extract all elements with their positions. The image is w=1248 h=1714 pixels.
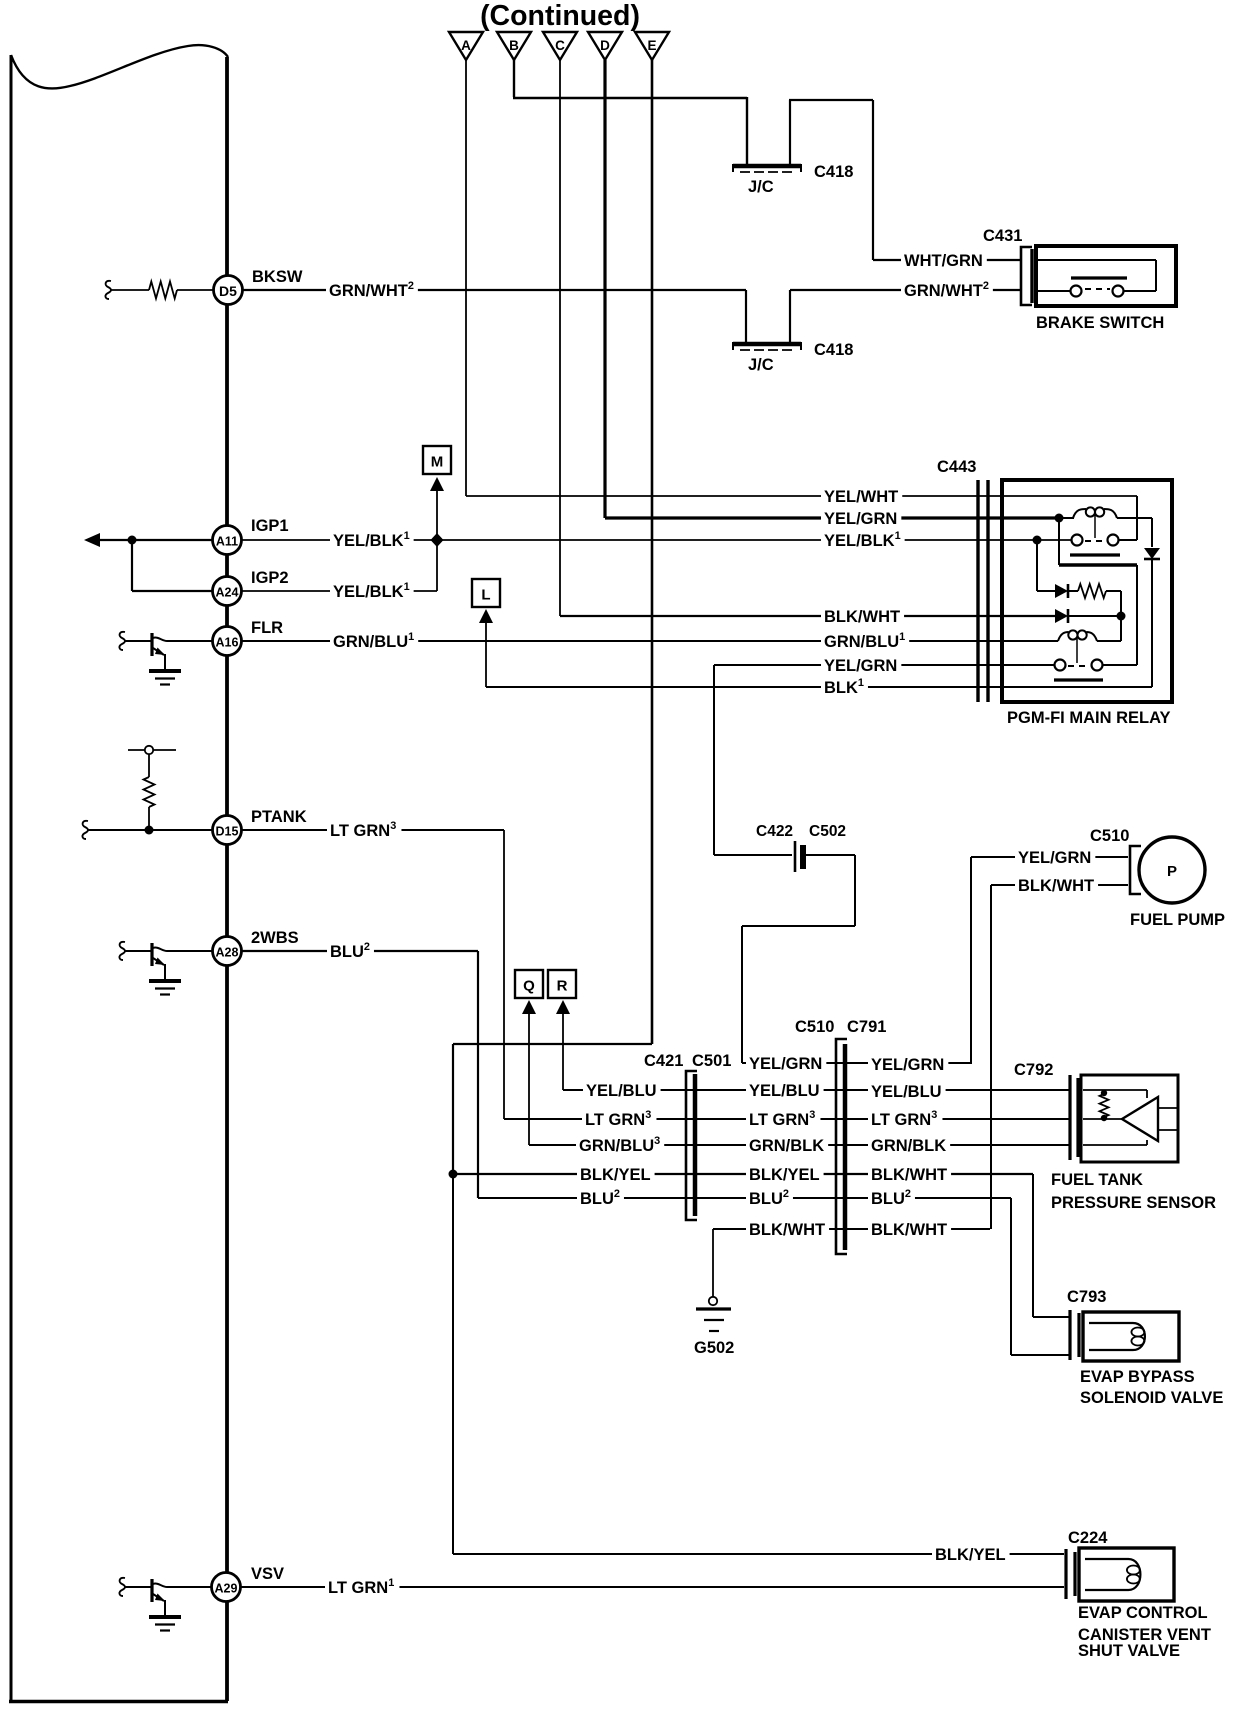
relay coil 1 (1059, 507, 1117, 518)
svg-text:GRN/BLU3: GRN/BLU3 (579, 1135, 660, 1155)
svg-text:C422: C422 (756, 823, 793, 840)
wire D to YEL/GRN (605, 60, 1059, 528)
svg-text:BLK/WHT: BLK/WHT (871, 1221, 947, 1239)
svg-text:(Continued): (Continued) (480, 0, 640, 32)
label BRAKE SWITCH (1036, 314, 1164, 332)
wire GRN/WHT2 from D5 to J/C (243, 280, 747, 300)
label PTANK (251, 808, 307, 826)
wire YEL/GRN to fuel pump (971, 847, 1128, 1064)
label PGM-FI MAIN RELAY (1007, 709, 1170, 727)
svg-text:LT GRN3: LT GRN3 (871, 1109, 937, 1129)
svg-text:EVAP BYPASS: EVAP BYPASS (1080, 1368, 1195, 1386)
svg-text:GRN/WHT2: GRN/WHT2 (329, 280, 414, 300)
svg-text:GRN/BLU1: GRN/BLU1 (333, 631, 414, 651)
relay node YEL/BLK (1033, 536, 1042, 545)
connector triangle C (543, 32, 577, 60)
svg-text:YEL/BLU: YEL/BLU (749, 1082, 820, 1100)
ECU connector bus vertical (wire) (225, 57, 229, 1701)
wire WHT/GRN to C431 (873, 250, 1021, 270)
relay wire diode3 to node (1068, 615, 1121, 617)
relay coil 2 link (1076, 637, 1078, 663)
svg-text:A29: A29 (215, 1582, 238, 1596)
box L (472, 579, 500, 607)
label J/C (bottom) (748, 356, 774, 374)
junction connector C418 (bottom) (733, 342, 801, 350)
node PTANK (145, 826, 154, 835)
relay diode D3 right (1055, 609, 1068, 623)
svg-text:YEL/BLK1: YEL/BLK1 (333, 530, 410, 550)
wire GRN/BLU3-GRN/BLK row (529, 1135, 1070, 1155)
label C421 (644, 1052, 683, 1070)
svg-text:EVAP CONTROL: EVAP CONTROL (1078, 1604, 1208, 1622)
connector C422/C502 (756, 823, 846, 872)
wire YEL/GRN fuel pump feed (714, 655, 1055, 675)
pin A24 (IGP2) (213, 577, 242, 606)
svg-text:B: B (509, 38, 519, 53)
wire BLU2 row (478, 1188, 1011, 1208)
label J/C (top) (748, 178, 774, 196)
connector C792 (1070, 1075, 1078, 1160)
relay wire coil1 to diode (1117, 518, 1152, 547)
ground G502 (696, 1297, 731, 1331)
svg-text:C443: C443 (937, 458, 976, 476)
wire to C422 (714, 854, 792, 856)
junction connector C418 (top) (733, 164, 801, 172)
label BKSW (252, 268, 303, 286)
wire YEL/BLK1 A11 to relay (242, 530, 1072, 550)
sensor internal resistor (1100, 1090, 1109, 1121)
svg-text:FUEL PUMP: FUEL PUMP (1130, 911, 1225, 929)
connector C421 bracket (686, 1071, 697, 1220)
label SHUT VALVE (1078, 1642, 1180, 1660)
ECU box bottom edge (wire) (9, 1700, 228, 1704)
relay wire resistor to node (1120, 591, 1122, 641)
wire LT GRN3 from D15 (242, 820, 505, 1119)
wire C502 to YEL/GRN row (742, 855, 855, 1063)
EVAP canister vent shut valve (1079, 1548, 1174, 1601)
svg-text:LT GRN3: LT GRN3 (749, 1109, 815, 1129)
connector C510 bracket2 (836, 1039, 847, 1254)
svg-text:A11: A11 (216, 535, 238, 549)
pin A28 (2WBS) (213, 937, 242, 966)
wire BLU2 to C793 (1011, 1198, 1069, 1355)
svg-text:Q: Q (523, 978, 535, 995)
label CANISTER VENT (1078, 1626, 1211, 1644)
svg-text:BLK/WHT: BLK/WHT (1018, 877, 1094, 895)
svg-text:YEL/GRN: YEL/GRN (824, 657, 897, 675)
wire BLK/WHT to C793 (1033, 1174, 1069, 1317)
svg-text:WHT/GRN: WHT/GRN (904, 252, 983, 270)
label C792 (1014, 1061, 1053, 1079)
wire L arrow to BLK1 (479, 609, 493, 687)
PGM-FI main relay box (1002, 480, 1172, 702)
svg-text:PGM-FI MAIN RELAY: PGM-FI MAIN RELAY (1007, 709, 1170, 727)
relay coil 1 link (1094, 514, 1096, 538)
pin A16 (FLR) (213, 627, 242, 656)
brake switch inner wiring (1038, 260, 1156, 291)
connector triangle D (588, 32, 622, 60)
svg-text:IGP1: IGP1 (251, 517, 289, 535)
label C510 (795, 1018, 834, 1036)
svg-text:LT GRN3: LT GRN3 (330, 820, 396, 840)
svg-text:M: M (431, 454, 444, 471)
brake switch box (1036, 246, 1176, 306)
relay contact 2 (1054, 660, 1103, 681)
relay YEL/WHT internal wire (1136, 496, 1138, 540)
label C418 (bottom) (814, 341, 853, 359)
relay node YEL/GRN (1055, 514, 1064, 523)
label 2WBS (251, 929, 299, 947)
ECU box left edge (wire) (10, 55, 13, 1703)
brake switch contacts (1071, 278, 1128, 297)
wire LT GRN3 row (504, 1109, 1070, 1129)
label C510 fuel pump (1090, 827, 1129, 845)
relay coil 2 (1058, 630, 1097, 641)
svg-text:C224: C224 (1068, 1529, 1108, 1547)
wire B to top J/C (513, 60, 747, 164)
svg-text:YEL/BLK1: YEL/BLK1 (824, 530, 901, 550)
svg-text:YEL/GRN: YEL/GRN (1018, 849, 1091, 867)
label FLR (251, 619, 283, 637)
svg-text:GRN/BLK: GRN/BLK (871, 1137, 946, 1155)
label G502 (694, 1339, 734, 1357)
svg-text:C510: C510 (1090, 827, 1129, 845)
wire BLK1 to relay (486, 677, 1152, 697)
pin D5 (BKSW) (214, 276, 243, 305)
arrow IGP1 to left (84, 533, 213, 547)
svg-text:YEL/WHT: YEL/WHT (824, 488, 898, 506)
svg-text:YEL/GRN: YEL/GRN (871, 1056, 944, 1074)
wire GRN/BLU1 A16 to relay (167, 631, 1058, 651)
svg-text:A: A (461, 38, 471, 53)
label C501 (692, 1052, 731, 1070)
connector C443 (937, 458, 988, 702)
relay wire coil2 to node (1097, 640, 1121, 642)
svg-text:R: R (557, 978, 568, 995)
relay diode D1 down (1144, 548, 1160, 559)
wire relay YEL/GRN down to C422 (713, 665, 715, 855)
label EVAP BYPASS (1080, 1368, 1195, 1386)
connector C224 (1066, 1549, 1075, 1599)
connector C791 bar (843, 1044, 848, 1250)
label VSV (251, 1565, 284, 1583)
svg-text:BRAKE SWITCH: BRAKE SWITCH (1036, 314, 1164, 332)
wire C to BLK/WHT (560, 60, 1055, 626)
svg-text:YEL/BLK1: YEL/BLK1 (333, 581, 410, 601)
label C793 (1067, 1288, 1106, 1306)
svg-text:C501: C501 (692, 1052, 731, 1070)
svg-text:C793: C793 (1067, 1288, 1106, 1306)
ECU box wavy top edge (11, 45, 228, 88)
node IGP1 branch (128, 536, 137, 545)
wire top J/C to WHT/GRN (789, 100, 873, 260)
wire LT GRN1 from A29 (167, 1577, 1064, 1597)
box Q (515, 970, 543, 998)
connector triangle A (449, 32, 483, 60)
label IGP2 (251, 569, 289, 587)
svg-text:PTANK: PTANK (251, 808, 307, 826)
svg-text:BLK/WHT: BLK/WHT (871, 1166, 947, 1184)
svg-text:P: P (1167, 863, 1177, 880)
wire M arrow (430, 477, 444, 540)
svg-text:FLR: FLR (251, 619, 283, 637)
wire GRN/WHT2 from J/C to C431 (790, 280, 1021, 300)
wire BKSW drop to bottom J/C (745, 290, 747, 342)
title (Continued) (480, 0, 640, 32)
relay wire contact2 right (1103, 664, 1138, 666)
wire BLK/WHT to G502 (712, 1229, 714, 1297)
svg-text:YEL/GRN: YEL/GRN (749, 1055, 822, 1073)
svg-text:VSV: VSV (251, 1565, 284, 1583)
relay diode D2 right (1055, 584, 1068, 598)
svg-text:C: C (555, 38, 565, 53)
label C418 (top) (814, 163, 853, 181)
wire BLK/YEL down to EVAP valve (453, 1174, 1064, 1564)
svg-text:YEL/BLU: YEL/BLU (871, 1083, 942, 1101)
wire YEL/BLK1 A24 up to junction (242, 540, 437, 601)
svg-text:BKSW: BKSW (252, 268, 303, 286)
svg-text:C418: C418 (814, 163, 853, 181)
connector triangle E (635, 32, 669, 60)
svg-text:A24: A24 (216, 586, 239, 600)
relay wire YEL/BLK to diode row (1037, 540, 1055, 591)
sensor internal wiring (1083, 1090, 1147, 1145)
svg-text:C791: C791 (847, 1018, 886, 1036)
transistor at FLR driver (119, 632, 181, 685)
svg-text:BLK/WHT: BLK/WHT (824, 608, 900, 626)
label C791 (847, 1018, 886, 1036)
relay wire diode to BLK (1151, 559, 1153, 687)
label FUEL PUMP (1130, 911, 1225, 929)
pin A11 (IGP1) (213, 526, 242, 555)
svg-text:SOLENOID VALVE: SOLENOID VALVE (1080, 1389, 1223, 1407)
svg-text:SHUT VALVE: SHUT VALVE (1078, 1642, 1180, 1660)
wire YEL/GRN row C502-C791-pump (742, 1053, 971, 1074)
svg-text:BLK/YEL: BLK/YEL (749, 1166, 820, 1184)
svg-text:2WBS: 2WBS (251, 929, 299, 947)
wire BLU2 from A28 (167, 941, 478, 1198)
label C224 (1068, 1529, 1108, 1547)
svg-text:C431: C431 (983, 227, 1022, 245)
svg-text:C421: C421 (644, 1052, 683, 1070)
fuel pump motor (1139, 837, 1205, 903)
transistor at 2WBS driver (119, 942, 181, 995)
connector C501 bar (693, 1074, 698, 1216)
pull-up resistor at PTANK (82, 746, 212, 839)
svg-text:L: L (481, 587, 490, 604)
label IGP1 (251, 517, 289, 535)
svg-text:GRN/BLK: GRN/BLK (749, 1137, 824, 1155)
svg-text:A16: A16 (216, 636, 239, 650)
wire bottom J/C up to brake switch wire (789, 290, 791, 342)
svg-text:C792: C792 (1014, 1061, 1053, 1079)
label FUEL TANK (1051, 1171, 1143, 1189)
wire Q arrow to GRN/BLU3 (522, 1000, 576, 1145)
svg-text:BLK/YEL: BLK/YEL (935, 1546, 1006, 1564)
wire IGP1 to IGP2 branch (132, 540, 213, 591)
svg-text:LT GRN1: LT GRN1 (328, 1577, 394, 1597)
wire R arrow to YEL/BLU (556, 1000, 583, 1090)
connector C793 (1070, 1310, 1079, 1360)
svg-text:BLK/WHT: BLK/WHT (749, 1221, 825, 1239)
svg-text:LT GRN3: LT GRN3 (585, 1109, 651, 1129)
svg-text:YEL/GRN: YEL/GRN (824, 510, 897, 528)
connector C510 bracket (1130, 846, 1141, 894)
wire BLK/YEL-BLK/WHT row (453, 1164, 1033, 1184)
svg-text:C502: C502 (809, 823, 846, 840)
relay wire contact1 to YEL/WHT (1119, 539, 1138, 541)
fuel tank pressure sensor box (1081, 1075, 1178, 1162)
svg-text:FUEL TANK: FUEL TANK (1051, 1171, 1143, 1189)
wire A to YEL/WHT (466, 60, 1137, 506)
wire E to BLK/YEL (453, 1044, 652, 1174)
label PRESSURE SENSOR (1051, 1194, 1216, 1212)
relay contact 1 (1070, 535, 1120, 556)
pin A29 (VSV) (212, 1573, 241, 1602)
connector C431 (983, 227, 1032, 305)
svg-text:D5: D5 (219, 283, 237, 299)
svg-text:GRN/WHT2: GRN/WHT2 (904, 280, 989, 300)
node BLK/YEL (449, 1170, 458, 1179)
svg-text:D15: D15 (216, 825, 239, 839)
box R (548, 970, 576, 998)
wire YEL/BLU row (563, 1080, 1070, 1101)
relay node 2 (1117, 612, 1126, 621)
label EVAP CONTROL (1078, 1604, 1208, 1622)
pin D15 (PTANK) (213, 816, 242, 845)
resistor at BKSW input (105, 281, 212, 299)
relay resistor (1068, 584, 1121, 598)
svg-text:IGP2: IGP2 (251, 569, 289, 587)
svg-text:C510: C510 (795, 1018, 834, 1036)
svg-text:A28: A28 (216, 946, 239, 960)
wire E vertical (651, 60, 654, 1044)
transistor at VSV driver (119, 1578, 181, 1631)
wire BLK/WHT to fuel pump (991, 875, 1128, 1229)
connector triangle B (497, 32, 531, 60)
svg-text:GRN/BLU1: GRN/BLU1 (824, 631, 905, 651)
svg-text:YEL/BLU: YEL/BLU (586, 1082, 657, 1100)
sensor amplifier (1122, 1097, 1177, 1141)
wire BLK/WHT ground row (713, 1219, 990, 1239)
svg-text:PRESSURE SENSOR: PRESSURE SENSOR (1051, 1194, 1216, 1212)
svg-text:BLK/YEL: BLK/YEL (580, 1166, 651, 1184)
svg-text:J/C: J/C (748, 178, 774, 196)
junction node on YEL/BLK1 (431, 533, 444, 547)
svg-text:G502: G502 (694, 1339, 734, 1357)
svg-text:E: E (647, 38, 656, 53)
relay wire YEL/GRN switch feed (1059, 518, 1137, 665)
svg-text:C418: C418 (814, 341, 853, 359)
svg-text:D: D (600, 38, 610, 53)
label SOLENOID VALVE (1080, 1389, 1223, 1407)
EVAP bypass solenoid valve (1083, 1312, 1179, 1361)
svg-text:J/C: J/C (748, 356, 774, 374)
box M (423, 446, 451, 474)
